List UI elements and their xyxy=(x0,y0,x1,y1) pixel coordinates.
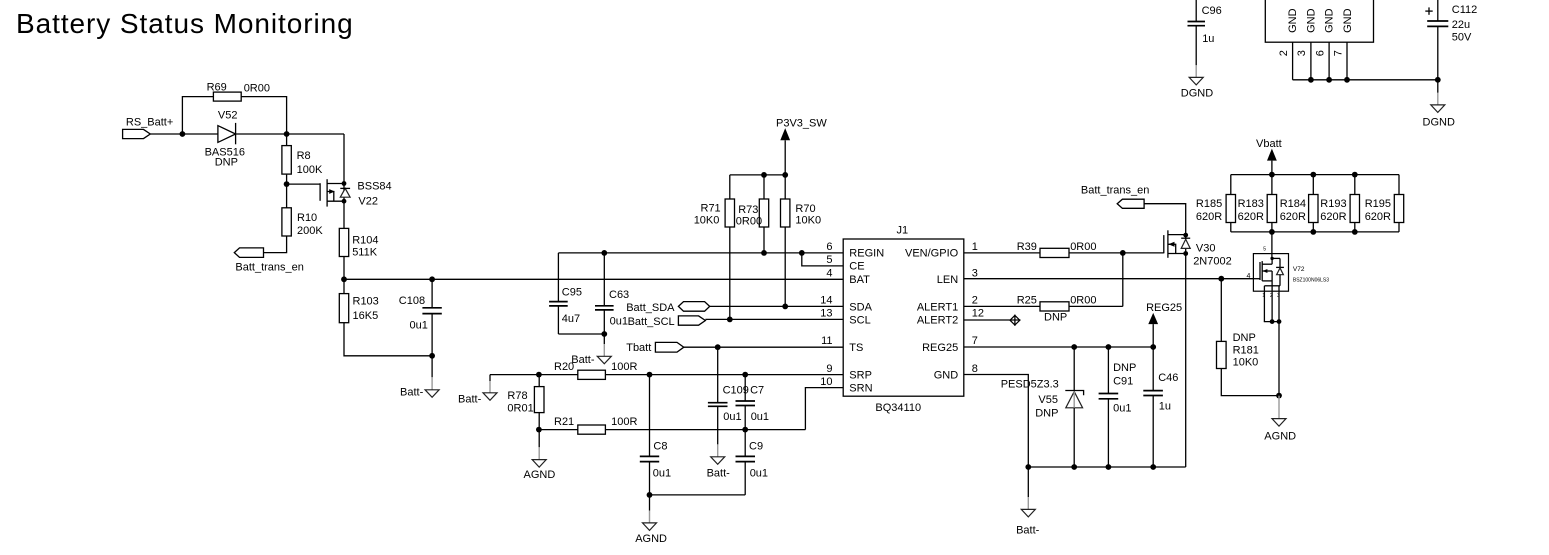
svg-text:VEN/GPIO: VEN/GPIO xyxy=(905,248,959,260)
wire gate lead to BSS84 xyxy=(287,183,321,185)
ground Batt- below bus xyxy=(1016,467,1040,536)
svg-text:Batt-: Batt- xyxy=(458,394,482,406)
svg-text:1u: 1u xyxy=(1202,33,1214,45)
svg-text:Batt-: Batt- xyxy=(571,354,595,366)
wire resistor bottom bus xyxy=(1231,231,1399,233)
svg-text:SRP: SRP xyxy=(849,369,872,381)
svg-text:620R: 620R xyxy=(1238,211,1264,223)
svg-text:GND: GND xyxy=(934,369,959,381)
capacitor C46 xyxy=(1143,347,1178,467)
node junction bottom bus R183/V72 xyxy=(1269,229,1275,235)
svg-text:DNP: DNP xyxy=(215,157,238,169)
svg-text:0R00: 0R00 xyxy=(1070,294,1096,306)
svg-text:GND: GND xyxy=(1306,8,1318,33)
resistor R195 xyxy=(1365,175,1404,232)
svg-text:DNP: DNP xyxy=(1113,362,1136,374)
node junction C108 bottom xyxy=(429,353,435,359)
svg-text:R20: R20 xyxy=(554,361,574,373)
node junction R73 bottom on REGIN xyxy=(761,250,767,256)
svg-text:C108: C108 xyxy=(399,295,425,307)
svg-text:10: 10 xyxy=(820,376,832,388)
svg-text:2: 2 xyxy=(972,295,978,307)
svg-text:R39: R39 xyxy=(1017,241,1037,253)
svg-text:9: 9 xyxy=(826,363,832,375)
svg-text:C91: C91 xyxy=(1113,375,1133,387)
transistor V30 2N7002 xyxy=(1164,230,1232,267)
svg-text:R184: R184 xyxy=(1280,198,1306,210)
svg-text:DNP: DNP xyxy=(1233,332,1256,344)
svg-text:0u1: 0u1 xyxy=(410,319,428,331)
svg-text:10K0: 10K0 xyxy=(694,214,720,226)
svg-text:2: 2 xyxy=(1278,50,1290,56)
svg-text:LEN: LEN xyxy=(937,274,958,286)
svg-text:R73: R73 xyxy=(738,204,758,216)
node junction R70 bottom on SDA xyxy=(782,304,788,310)
node junction R73 top xyxy=(761,172,767,178)
wire V72 drain riser xyxy=(1271,232,1273,259)
svg-text:0u1: 0u1 xyxy=(750,468,768,480)
svg-text:C63: C63 xyxy=(609,289,629,301)
svg-text:200K: 200K xyxy=(297,225,323,237)
svg-text:Batt-: Batt- xyxy=(400,386,424,398)
node junction R20 left xyxy=(536,372,542,378)
transistor V72 BSZ100N06LS3 xyxy=(1247,247,1330,292)
svg-text:C96: C96 xyxy=(1202,5,1222,17)
svg-text:100R: 100R xyxy=(611,361,637,373)
svg-text:R195: R195 xyxy=(1365,198,1391,210)
node junction at R69 left tap xyxy=(180,131,186,137)
capacitor C63 xyxy=(595,253,629,334)
diode V52 BAS516 DNP xyxy=(205,110,245,169)
node junction top bus R193 xyxy=(1352,172,1358,178)
wire ALERT1 net xyxy=(964,305,1123,307)
node junction C8 bottom xyxy=(647,492,653,498)
IC connector with GND pins (top right) xyxy=(1265,0,1373,42)
svg-text:GND: GND xyxy=(1324,8,1336,33)
svg-text:100K: 100K xyxy=(297,164,323,176)
svg-text:R10: R10 xyxy=(297,212,317,224)
port Tbatt xyxy=(626,342,684,354)
svg-text:RS_Batt+: RS_Batt+ xyxy=(126,117,173,129)
svg-text:C112: C112 xyxy=(1452,4,1477,16)
wire V30 source down to ground bus xyxy=(1185,254,1187,468)
svg-text:1: 1 xyxy=(972,241,978,253)
wire C95/C63 bottom bus xyxy=(558,333,604,335)
ground Batt- below C63 xyxy=(571,334,611,366)
wire R69 right riser xyxy=(241,97,286,134)
resistor R185 xyxy=(1196,175,1236,232)
svg-text:11: 11 xyxy=(821,335,832,347)
node junction bus C91 xyxy=(1106,464,1112,470)
svg-text:C46: C46 xyxy=(1158,372,1178,384)
svg-text:10K0: 10K0 xyxy=(1233,357,1259,369)
svg-text:R70: R70 xyxy=(795,203,815,215)
svg-text:CE: CE xyxy=(849,261,864,273)
svg-text:6: 6 xyxy=(1314,50,1326,56)
svg-text:AGND: AGND xyxy=(1264,430,1296,442)
node junction bus V55 xyxy=(1071,464,1077,470)
svg-text:DGND: DGND xyxy=(1423,116,1455,128)
ground DGND below C96 xyxy=(1181,65,1213,99)
svg-text:Battery Status Monitoring: Battery Status Monitoring xyxy=(16,8,354,39)
ground DGND below C112 xyxy=(1423,80,1455,129)
svg-text:7: 7 xyxy=(972,335,978,347)
svg-text:0u1: 0u1 xyxy=(1113,402,1131,414)
svg-text:3: 3 xyxy=(1296,50,1308,56)
node junction C91 top xyxy=(1106,344,1112,350)
no-connect cross at ALERT2 xyxy=(1010,315,1020,326)
svg-text:7: 7 xyxy=(1333,50,1345,56)
resistor R78 xyxy=(507,375,544,430)
resistor R104 xyxy=(339,228,378,279)
svg-text:620R: 620R xyxy=(1196,211,1222,223)
wire LEN net to V72 gate xyxy=(964,278,1254,280)
svg-text:0u1: 0u1 xyxy=(751,411,769,423)
wire riser to ALERT1 xyxy=(1122,253,1124,307)
svg-text:BQ34110: BQ34110 xyxy=(875,402,921,414)
node junction C63 bottom xyxy=(601,331,607,337)
node junction CE riser xyxy=(799,250,805,256)
svg-text:GND: GND xyxy=(1342,8,1354,33)
svg-text:22u: 22u xyxy=(1452,19,1470,31)
svg-text:13: 13 xyxy=(820,308,832,320)
svg-text:3: 3 xyxy=(972,267,978,279)
svg-text:0R00: 0R00 xyxy=(244,82,270,94)
wire SDA net xyxy=(710,305,844,307)
svg-text:0R01: 0R01 xyxy=(507,403,533,415)
svg-text:DGND: DGND xyxy=(1181,87,1213,99)
wire AGND bottom bus C8-C9 xyxy=(650,494,746,496)
svg-text:R181: R181 xyxy=(1233,345,1259,357)
wire TS net xyxy=(684,346,843,348)
svg-text:R103: R103 xyxy=(353,296,379,308)
wire SRP net xyxy=(490,374,843,376)
svg-text:ALERT2: ALERT2 xyxy=(917,314,958,326)
node junction C7 top xyxy=(742,372,748,378)
wire REG25 net xyxy=(964,346,1153,348)
wire BAT net horizontal to IC xyxy=(344,278,843,280)
power REG25 arrow xyxy=(1146,302,1182,347)
svg-text:Vbatt: Vbatt xyxy=(1256,138,1282,150)
wire R69 loop left riser xyxy=(182,97,213,134)
wire BSS84 drain vertical xyxy=(343,134,345,228)
ground AGND below V72 xyxy=(1264,396,1296,443)
node junction R181 / V72 source xyxy=(1276,393,1282,399)
node junction P3V3 stem / R70 top xyxy=(782,172,788,178)
svg-text:R78: R78 xyxy=(507,390,527,402)
svg-text:620R: 620R xyxy=(1365,211,1391,223)
node junction R78 bottom xyxy=(536,427,542,433)
wire V72 source down to R181 node xyxy=(1278,322,1280,396)
resistor R69 xyxy=(207,81,270,101)
svg-text:REGIN: REGIN xyxy=(849,248,884,260)
resistor R10 xyxy=(264,184,324,253)
port RS_Batt+ xyxy=(123,117,174,139)
svg-text:6: 6 xyxy=(826,241,832,253)
svg-text:4u7: 4u7 xyxy=(562,313,580,325)
node junction C8 top xyxy=(647,372,653,378)
svg-text:R21: R21 xyxy=(554,416,574,428)
wire P3V3 top bus xyxy=(730,174,785,176)
svg-text:Batt_SDA: Batt_SDA xyxy=(626,302,675,314)
capacitor C8 xyxy=(640,375,671,495)
svg-text:511K: 511K xyxy=(352,247,378,259)
node junction pin6 lead xyxy=(1326,77,1332,83)
ground Batt- below C108 xyxy=(400,356,439,399)
resistor R70 xyxy=(781,175,822,307)
wire Batt_trans_en to V30 drain xyxy=(1144,204,1186,235)
svg-text:Tbatt: Tbatt xyxy=(626,342,651,354)
capacitor C9 xyxy=(736,430,769,495)
port Batt_SCL xyxy=(628,316,706,328)
svg-text:Batt_trans_en: Batt_trans_en xyxy=(235,261,304,273)
svg-text:620R: 620R xyxy=(1320,211,1346,223)
svg-text:DNP: DNP xyxy=(1044,312,1067,324)
port Batt_trans_en (left) xyxy=(234,248,304,273)
svg-text:0R00: 0R00 xyxy=(736,215,762,227)
node junction R181 top xyxy=(1218,276,1224,282)
svg-text:C95: C95 xyxy=(562,287,582,299)
svg-text:4: 4 xyxy=(826,267,832,279)
svg-text:620R: 620R xyxy=(1280,211,1306,223)
svg-text:V72: V72 xyxy=(1293,266,1305,273)
node junction top bus R183 xyxy=(1269,172,1275,178)
IC J1 BQ34110 xyxy=(843,225,964,414)
svg-text:V55: V55 xyxy=(1038,394,1058,406)
node junction R71 bottom on SCL xyxy=(727,317,733,323)
svg-text:BSS84: BSS84 xyxy=(357,181,391,193)
svg-text:AGND: AGND xyxy=(635,533,667,545)
svg-text:50V: 50V xyxy=(1452,32,1472,44)
wire SRN riser xyxy=(805,388,843,430)
svg-text:R183: R183 xyxy=(1238,198,1264,210)
wire Vbatt resistor top bus xyxy=(1231,174,1399,176)
svg-text:14: 14 xyxy=(820,295,832,307)
svg-text:R8: R8 xyxy=(297,150,311,162)
port Batt_trans_en (right) xyxy=(1081,184,1150,208)
svg-text:R71: R71 xyxy=(701,202,721,214)
wire DGND horizontal bus xyxy=(1293,79,1438,81)
power P3V3_SW arrow xyxy=(776,118,827,175)
svg-text:C7: C7 xyxy=(750,384,764,396)
capacitor C108 xyxy=(399,279,442,356)
node junction C109 top on TS xyxy=(715,344,721,350)
svg-text:R185: R185 xyxy=(1196,198,1222,210)
svg-text:ALERT1: ALERT1 xyxy=(917,301,958,313)
capacitor C7 xyxy=(736,375,770,430)
node junction bus pin8 xyxy=(1025,464,1031,470)
node junction top bus R184 xyxy=(1310,172,1316,178)
svg-text:REG25: REG25 xyxy=(1146,302,1182,314)
svg-text:V52: V52 xyxy=(218,110,238,122)
wire V72 bottom pins xyxy=(1262,286,1281,324)
node junction bus C46 xyxy=(1150,464,1156,470)
resistor R20 xyxy=(554,361,637,379)
node junction pin3 lead xyxy=(1308,77,1314,83)
node junction bottom bus R193 xyxy=(1352,229,1358,235)
node junction C46 top / REG25 arrow xyxy=(1150,344,1156,350)
ground Batt- left of R20 xyxy=(458,375,497,406)
wire ground bottom bus xyxy=(1028,466,1185,468)
resistor R103 xyxy=(339,279,432,356)
node junction C7 bottom / C9 top xyxy=(742,427,748,433)
svg-text:DNP: DNP xyxy=(1035,407,1058,419)
svg-text:100R: 100R xyxy=(611,416,637,428)
svg-text:0u1: 0u1 xyxy=(653,468,671,480)
power Vbatt arrow xyxy=(1256,138,1282,175)
capacitor C112 electrolytic xyxy=(1425,0,1477,80)
svg-text:R25: R25 xyxy=(1017,294,1037,306)
node junction R39/R25 riser xyxy=(1120,250,1126,256)
node junction diode cathode / R8 top xyxy=(284,131,290,137)
svg-text:REG25: REG25 xyxy=(922,342,958,354)
svg-text:Batt_trans_en: Batt_trans_en xyxy=(1081,184,1150,196)
svg-text:TS: TS xyxy=(849,342,863,354)
transistor V22 BSS84 xyxy=(320,179,392,207)
svg-text:PESD5Z3.3: PESD5Z3.3 xyxy=(1001,379,1059,391)
wire ALERT2 stub xyxy=(964,319,1021,321)
zener diode V55 PESD5Z3.3 xyxy=(1001,347,1084,467)
svg-text:Batt-: Batt- xyxy=(1016,524,1040,536)
wire SCL net xyxy=(705,318,843,320)
node junction C112 bottom xyxy=(1435,77,1441,83)
resistor R73 xyxy=(736,175,769,253)
svg-text:0R00: 0R00 xyxy=(1070,241,1096,253)
capacitor C91 xyxy=(1099,347,1137,467)
node junction pin7 lead xyxy=(1344,77,1350,83)
svg-text:5: 5 xyxy=(826,254,832,266)
svg-text:P3V3_SW: P3V3_SW xyxy=(776,118,827,130)
svg-text:0u1: 0u1 xyxy=(610,315,628,327)
wire CE riser xyxy=(802,253,843,266)
wire REGIN net horizontal xyxy=(558,252,843,254)
svg-text:GND: GND xyxy=(1287,8,1299,33)
capacitor C96 xyxy=(1188,0,1222,65)
svg-text:SDA: SDA xyxy=(849,301,872,313)
node junction R104 bottom / BAT net xyxy=(341,276,347,282)
node junction C108 top on BAT net xyxy=(429,276,435,282)
ground AGND below R78 xyxy=(524,430,556,481)
resistor R25 xyxy=(1017,294,1097,323)
svg-text:10K0: 10K0 xyxy=(795,214,821,226)
svg-text:Batt-: Batt- xyxy=(707,467,731,479)
resistor R8 xyxy=(282,134,323,184)
svg-text:2N7002: 2N7002 xyxy=(1193,255,1232,267)
resistor R39 xyxy=(1017,241,1097,258)
svg-text:C9: C9 xyxy=(749,441,763,453)
wire R21 net xyxy=(539,429,806,431)
ground AGND below C8 xyxy=(635,495,667,545)
node junction bottom bus R184 xyxy=(1310,229,1316,235)
svg-text:4: 4 xyxy=(1247,273,1251,280)
svg-text:BSZ100N06LS3: BSZ100N06LS3 xyxy=(1293,277,1329,283)
resistor R21 xyxy=(554,416,637,434)
wire GND pin leads xyxy=(1293,42,1347,80)
wire VEN/GPIO net to V30 gate xyxy=(964,252,1164,254)
svg-text:12: 12 xyxy=(972,308,984,320)
svg-text:V30: V30 xyxy=(1196,242,1216,254)
node junction V55 top xyxy=(1071,344,1077,350)
wire RS_Batt+ main horizontal xyxy=(150,133,344,135)
wire GND pin8 to bus xyxy=(964,375,1029,468)
port Batt_SDA xyxy=(626,302,710,315)
svg-text:R193: R193 xyxy=(1320,198,1346,210)
svg-text:V22: V22 xyxy=(358,195,378,207)
svg-text:16K5: 16K5 xyxy=(353,310,379,322)
svg-text:J1: J1 xyxy=(897,225,909,237)
resistor R71 xyxy=(694,175,735,320)
svg-text:R69: R69 xyxy=(207,81,227,93)
svg-text:0u1: 0u1 xyxy=(723,411,741,423)
resistor R181 xyxy=(1217,279,1280,396)
svg-text:BAT: BAT xyxy=(849,274,870,286)
svg-text:R104: R104 xyxy=(352,234,378,246)
svg-text:C8: C8 xyxy=(653,441,667,453)
capacitor C95 xyxy=(549,253,582,334)
capacitor C109 xyxy=(708,347,749,444)
resistor R193 xyxy=(1320,175,1359,232)
svg-text:1u: 1u xyxy=(1159,401,1171,413)
node junction C63 top xyxy=(601,250,607,256)
svg-text:8: 8 xyxy=(972,363,978,375)
svg-text:SRN: SRN xyxy=(849,383,872,395)
ground Batt- below C109 xyxy=(707,444,731,479)
svg-text:AGND: AGND xyxy=(524,469,556,481)
node junction R8 bottom / gate / R10 xyxy=(284,181,290,187)
svg-text:5: 5 xyxy=(1263,247,1266,253)
resistor R183 xyxy=(1238,175,1277,232)
resistor R184 xyxy=(1280,175,1318,232)
svg-text:Batt_SCL: Batt_SCL xyxy=(628,316,675,328)
svg-text:SCL: SCL xyxy=(849,314,870,326)
